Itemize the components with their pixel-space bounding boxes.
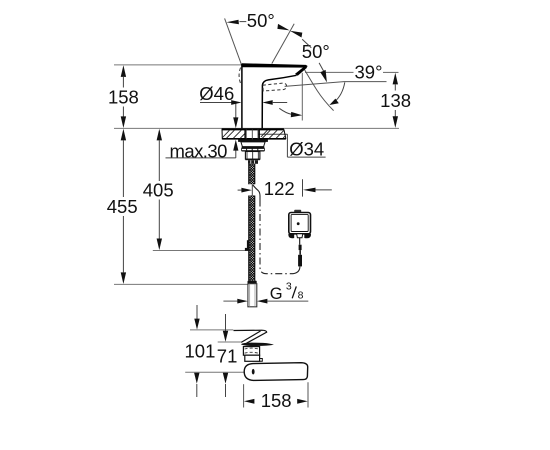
hose end cap [248, 281, 257, 284]
lever front wedge [295, 66, 308, 76]
ref line L3 (lever axis) [185, 371, 252, 373]
junction blob at 405 line meeting hose [247, 240, 250, 251]
countertop reference line [114, 127, 399, 129]
dimension 71 [217, 314, 238, 397]
svg-text:8: 8 [298, 290, 304, 302]
dimension 138 (vertical right) [380, 72, 411, 128]
svg-text:158: 158 [108, 87, 139, 108]
stream reference line [285, 82, 344, 87]
trapezoid below washer [241, 142, 265, 147]
bowtie arrows on line 2 [277, 24, 302, 38]
svg-text:71: 71 [217, 346, 238, 367]
aerator centerline [301, 73, 303, 121]
sensor dot on lever [252, 369, 255, 375]
mounting nut [242, 147, 265, 152]
sensor cable from hose [253, 185, 260, 200]
hex adapter [245, 152, 260, 161]
control box [288, 210, 311, 267]
dimension 158 (vertical left) [108, 65, 139, 128]
svg-text:3: 3 [286, 281, 292, 293]
top reference line (spout top level) [114, 64, 242, 66]
hose crimp [248, 160, 258, 164]
spout underside curve [262, 75, 296, 128]
extension line 3 (lever front, spray angle leg) [304, 69, 334, 111]
dimension 158 (bottom) [244, 382, 308, 411]
neck [245, 355, 260, 361]
Ø34 label with leader [258, 134, 326, 159]
dimension 101 [185, 305, 216, 397]
G3/8 nipple [248, 284, 257, 307]
body left edge [241, 64, 243, 128]
pivot cap lens [241, 343, 274, 346]
max.30 dimension [166, 103, 239, 162]
extension line 2 (lever tilted right) [272, 24, 294, 64]
50° label #1 with leader arrow [226, 10, 274, 31]
Ø46 dimension [199, 83, 287, 105]
arc 2 with arrow [279, 108, 292, 114]
svg-text:Ø34: Ø34 [289, 138, 324, 159]
svg-text:50°: 50° [302, 41, 330, 62]
braided hose upper segment [248, 164, 255, 184]
svg-text:39°: 39° [355, 62, 383, 83]
svg-text:138: 138 [380, 90, 411, 111]
svg-text:158: 158 [261, 390, 292, 411]
G 3/8 label [223, 281, 308, 304]
svg-text:122: 122 [264, 178, 295, 199]
ref line L1 (blade top) [190, 329, 233, 331]
hole edges [244, 129, 246, 139]
405 bottom reference line [153, 250, 247, 252]
leader from bowtie down to stream arrow [302, 39, 311, 48]
39° label and its reference line [305, 62, 382, 83]
svg-text:Ø46: Ø46 [199, 83, 234, 104]
washer plate under counter [238, 139, 268, 142]
bottom reference line (hose end) [114, 283, 248, 285]
faucet body: top lever band [242, 63, 308, 67]
top-view lever blade [234, 330, 267, 343]
countertop slab [222, 129, 286, 140]
braided hose lower segment [248, 196, 255, 281]
svg-text:max.30: max.30 [170, 141, 228, 162]
assembly centerline through shank [251, 130, 253, 161]
svg-text:50°: 50° [247, 10, 275, 31]
dimension 405 (vertical) [143, 129, 247, 251]
lever handle [244, 363, 308, 381]
svg-text:405: 405 [143, 179, 174, 200]
dashed hidden edge top-left [239, 68, 241, 85]
hatching [223, 130, 286, 138]
extension line 1 (lever tilted left) [225, 18, 242, 65]
cartridge housing [243, 347, 259, 356]
dimension 455 (vertical left) [107, 129, 138, 284]
arc 1 with arrow (39° angle) [335, 82, 345, 102]
svg-text:455: 455 [107, 196, 138, 217]
svg-text:G: G [270, 285, 283, 303]
dashed aerator (hidden) [263, 83, 287, 91]
ref line L2 (cap top) [218, 341, 242, 343]
dimension 122 [238, 178, 332, 199]
svg-text:101: 101 [185, 341, 216, 362]
